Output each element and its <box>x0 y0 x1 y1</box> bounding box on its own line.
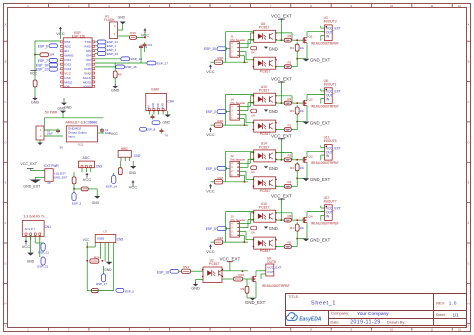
svg-text:VCC_EXT: VCC_EXT <box>271 133 292 138</box>
svg-text:1.0: 1.0 <box>449 301 457 306</box>
svg-text:CN5: CN5 <box>117 237 124 241</box>
svg-text:D: D <box>468 140 470 144</box>
svg-text:VCC_EXT: VCC_EXT <box>271 194 292 199</box>
svg-text:IO4: IO4 <box>86 54 91 58</box>
svg-text:ESP_19: ESP_19 <box>107 52 118 56</box>
svg-text:5V: 5V <box>147 105 151 108</box>
svg-text:ESP_3: ESP_3 <box>72 201 82 205</box>
svg-text:VCC: VCC <box>83 177 92 182</box>
svg-text:5V: 5V <box>60 146 64 150</box>
svg-text:1K: 1K <box>286 219 289 222</box>
svg-text:ESP_18: ESP_18 <box>157 271 169 275</box>
svg-text:ESP_16: ESP_16 <box>125 65 137 69</box>
svg-text:CN1: CN1 <box>45 225 52 229</box>
svg-text:VCC: VCC <box>206 249 215 254</box>
svg-text:R3: R3 <box>288 34 292 38</box>
svg-text:PC817: PC817 <box>260 249 271 253</box>
svg-text:H: H <box>5 302 7 306</box>
svg-text:GSM: GSM <box>151 88 159 92</box>
svg-text:ESP_5: ESP_5 <box>125 290 134 294</box>
svg-text:2019-11-29: 2019-11-29 <box>350 320 380 326</box>
svg-text:5V PWR: 5V PWR <box>45 110 58 114</box>
svg-text:CN2: CN2 <box>134 154 141 158</box>
svg-text:10uF: 10uF <box>47 132 53 136</box>
svg-text:VCC: VCC <box>64 71 71 75</box>
svg-text:RXD: RXD <box>160 103 164 109</box>
svg-text:OUT: OUT <box>267 270 274 274</box>
svg-text:R16: R16 <box>130 31 136 35</box>
svg-text:R4: R4 <box>290 226 294 230</box>
svg-text:IN/OUT5: IN/OUT5 <box>324 139 337 143</box>
svg-text:VCC: VCC <box>206 69 215 74</box>
svg-text:IRLML0060TRPBF: IRLML0060TRPBF <box>262 284 290 288</box>
svg-text:ESP_17: ESP_17 <box>157 61 169 65</box>
svg-text:C15: C15 <box>147 43 152 47</box>
svg-text:ESP_21: ESP_21 <box>37 265 48 269</box>
svg-text:IRLML0060TRPBF: IRLML0060TRPBF <box>311 161 339 165</box>
svg-text:Input: Input <box>68 135 75 139</box>
svg-text:GND: GND <box>269 46 278 51</box>
svg-text:GND: GND <box>31 101 40 105</box>
svg-text:GND_EXT: GND_EXT <box>245 300 266 305</box>
svg-text:PC817: PC817 <box>259 206 270 210</box>
svg-text:IN/OUT3: IN/OUT3 <box>324 20 337 24</box>
svg-text:IO14: IO14 <box>64 58 71 62</box>
svg-text:VCC: VCC <box>22 244 31 249</box>
svg-text:R2: R2 <box>288 240 292 244</box>
svg-text:PC817: PC817 <box>259 145 270 149</box>
svg-text:GND: GND <box>64 106 72 110</box>
svg-text:R2: R2 <box>288 123 292 127</box>
svg-text:Drawn By:: Drawn By: <box>387 319 405 324</box>
svg-text:Your Company: Your Company <box>357 311 389 317</box>
svg-text:ESP_8: ESP_8 <box>146 128 156 132</box>
svg-text:PC817: PC817 <box>209 262 219 266</box>
svg-text:1K: 1K <box>286 186 289 189</box>
svg-text:IO5: IO5 <box>86 49 91 53</box>
svg-text:R4: R4 <box>290 46 294 50</box>
svg-text:11: 11 <box>431 4 434 8</box>
svg-text:ESP_17: ESP_17 <box>96 282 107 286</box>
svg-text:VCC_EXT: VCC_EXT <box>20 162 37 166</box>
svg-text:B: B <box>5 60 7 64</box>
svg-text:MOSI: MOSI <box>83 80 91 84</box>
svg-text:1K: 1K <box>286 39 289 42</box>
svg-text:R2: R2 <box>288 60 292 64</box>
svg-text:D: D <box>5 140 7 144</box>
svg-text:1K: 1K <box>286 129 289 132</box>
svg-text:GND: GND <box>111 89 120 93</box>
svg-text:3V G R T: 3V G R T <box>25 228 36 231</box>
svg-text:WAKE: WAKE <box>64 54 73 58</box>
svg-text:PC817: PC817 <box>260 189 271 193</box>
svg-text:PC817: PC817 <box>259 26 270 30</box>
svg-text:IO9: IO9 <box>64 85 69 89</box>
svg-text:IO12: IO12 <box>64 62 71 66</box>
svg-text:PC817: PC817 <box>260 69 271 73</box>
svg-text:TXD: TXD <box>85 40 92 44</box>
svg-text:GND: GND <box>104 268 112 272</box>
svg-text:U4: U4 <box>251 51 255 55</box>
svg-text:GND: GND <box>163 120 171 124</box>
svg-text:ESP_6: ESP_6 <box>38 44 48 48</box>
svg-text:SCLK: SCLK <box>83 76 92 80</box>
svg-text:IN/OUT1: IN/OUT1 <box>324 82 337 86</box>
svg-text:CN4: CN4 <box>167 100 174 104</box>
svg-text:GND_EXT: GND_EXT <box>310 58 331 63</box>
svg-text:IO2: IO2 <box>86 62 91 66</box>
svg-text:VCC_EXT: VCC_EXT <box>271 77 292 82</box>
svg-text:Q3: Q3 <box>309 154 313 158</box>
svg-text:ESP_18: ESP_18 <box>131 57 143 61</box>
svg-text:R9: R9 <box>241 287 245 291</box>
svg-text:1K: 1K <box>286 66 289 69</box>
svg-text:104: 104 <box>49 53 54 57</box>
svg-text:Q4: Q4 <box>309 215 313 219</box>
svg-text:1K: 1K <box>286 102 289 105</box>
svg-text:G: G <box>4 261 6 265</box>
svg-text:IO13: IO13 <box>64 67 71 71</box>
svg-text:RXD: RXD <box>84 45 91 49</box>
svg-text:C36986: C36986 <box>86 121 98 125</box>
svg-text:GND: GND <box>118 15 126 19</box>
svg-text:IRLML0060TRPBF: IRLML0060TRPBF <box>311 104 339 108</box>
svg-text:CS0: CS0 <box>64 76 70 80</box>
svg-text:REV:: REV: <box>436 301 445 305</box>
svg-text:3.3 Gnd Rx Tx: 3.3 Gnd Rx Tx <box>24 214 46 218</box>
svg-text:U8: U8 <box>47 181 51 185</box>
svg-text:R5: R5 <box>118 73 122 77</box>
svg-text:IN/OUT7: IN/OUT7 <box>324 199 337 203</box>
svg-text:A: A <box>468 23 470 27</box>
svg-text:GND: GND <box>151 103 155 109</box>
svg-text:R3: R3 <box>288 97 292 101</box>
svg-text:Date:: Date: <box>331 320 340 324</box>
svg-text:Sheet:: Sheet: <box>436 313 446 317</box>
svg-text:IO0: IO0 <box>86 58 91 62</box>
svg-text:R3: R3 <box>288 154 292 158</box>
svg-text:U4: U4 <box>251 113 255 117</box>
svg-text:MISO: MISO <box>64 80 73 84</box>
svg-text:R2: R2 <box>288 180 292 184</box>
svg-text:10: 10 <box>390 4 393 8</box>
svg-text:IRLML0060TRPBF: IRLML0060TRPBF <box>311 42 339 46</box>
svg-text:H: H <box>468 302 470 306</box>
svg-text:RV1: RV1 <box>183 265 189 269</box>
svg-text:VCC: VCC <box>30 72 38 76</box>
svg-text:7V: 7V <box>165 133 169 137</box>
svg-text:AMS1117-3.3: AMS1117-3.3 <box>66 121 86 125</box>
svg-text:GND: GND <box>269 166 278 171</box>
svg-text:Company:: Company: <box>331 311 349 316</box>
svg-text:R4: R4 <box>290 166 294 170</box>
svg-text:Sheet_1: Sheet_1 <box>311 300 335 306</box>
svg-text:12: 12 <box>458 327 461 331</box>
svg-text:Q1: Q1 <box>309 35 313 39</box>
svg-text:ESP_20: ESP_20 <box>204 47 216 51</box>
svg-text:C: C <box>468 100 470 104</box>
svg-text:ESP-12E: ESP-12E <box>72 34 86 38</box>
svg-text:X555: X555 <box>97 237 105 241</box>
svg-text:GND: GND <box>269 109 278 114</box>
svg-text:VCC_EXT: VCC_EXT <box>271 14 292 19</box>
svg-text:U11: U11 <box>78 142 84 146</box>
svg-text:PC817: PC817 <box>259 89 270 93</box>
svg-text:R3: R3 <box>288 214 292 218</box>
svg-text:EN: EN <box>64 49 68 53</box>
svg-text:11: 11 <box>431 327 434 331</box>
svg-text:U7: U7 <box>103 230 107 234</box>
svg-text:GND_EXT: GND_EXT <box>310 177 331 182</box>
svg-text:VCC: VCC <box>206 189 215 194</box>
svg-text:1K: 1K <box>286 159 289 162</box>
svg-text:U4: U4 <box>251 170 255 174</box>
svg-text:GND_EXT: GND_EXT <box>310 120 331 125</box>
svg-text:GND_EXT: GND_EXT <box>23 185 41 189</box>
svg-text:ESP_6: ESP_6 <box>206 167 216 171</box>
svg-text:RST: RST <box>64 40 70 44</box>
svg-text:+VCC: +VCC <box>109 132 119 136</box>
svg-text:VCC: VCC <box>83 238 90 242</box>
svg-text:OUT8: OUT8 <box>267 260 276 264</box>
svg-text:GND: GND <box>92 201 100 205</box>
svg-text:GND: GND <box>58 106 66 110</box>
svg-text:G: G <box>467 261 469 265</box>
svg-text:CN3: CN3 <box>96 165 103 169</box>
svg-text:10: 10 <box>390 327 393 331</box>
svg-text:GND: GND <box>191 287 200 291</box>
svg-text:TITLE:: TITLE: <box>288 295 299 299</box>
svg-text:FLASH: FLASH <box>104 18 115 22</box>
svg-text:U4: U4 <box>251 230 255 234</box>
svg-text:PC817: PC817 <box>260 132 271 136</box>
svg-text:12: 12 <box>458 4 461 8</box>
svg-text:A: A <box>5 23 7 27</box>
svg-text:ADC: ADC <box>64 45 71 49</box>
svg-text:C: C <box>5 100 7 104</box>
svg-text:IOG0: IOG0 <box>83 85 91 89</box>
svg-text:TXD: TXD <box>156 103 160 108</box>
svg-text:IRLML0060TRPBF: IRLML0060TRPBF <box>311 221 339 225</box>
svg-text:IO15: IO15 <box>84 67 91 71</box>
svg-text:ESP_2: ESP_2 <box>206 110 216 114</box>
svg-text:ESP_5: ESP_5 <box>206 227 216 231</box>
svg-text:B: B <box>468 60 470 64</box>
svg-text:Q2: Q2 <box>309 98 313 102</box>
svg-text:EasyEDA: EasyEDA <box>299 316 322 322</box>
svg-text:R4: R4 <box>290 109 294 113</box>
svg-text:E: E <box>5 181 7 185</box>
svg-text:GND: GND <box>269 226 278 231</box>
svg-text:ESP_7: ESP_7 <box>38 59 48 63</box>
svg-text:GND_EXT: GND_EXT <box>310 237 331 242</box>
svg-text:GND_EXT: GND_EXT <box>54 175 68 179</box>
svg-text:ESP_14: ESP_14 <box>106 184 117 188</box>
svg-text:GND: GND <box>27 260 35 264</box>
svg-text:E: E <box>468 181 470 185</box>
svg-text:VCC_EXT: VCC_EXT <box>220 257 241 262</box>
svg-text:EXT PWR: EXT PWR <box>44 164 59 168</box>
svg-text:R18: R18 <box>218 176 224 180</box>
svg-text:GND: GND <box>84 71 92 75</box>
svg-text:1K: 1K <box>286 246 289 249</box>
svg-text:1/1: 1/1 <box>453 313 460 318</box>
svg-text:GND: GND <box>129 171 137 175</box>
svg-text:ESP_12: ESP_12 <box>36 68 48 72</box>
svg-text:VCC: VCC <box>206 132 215 137</box>
svg-text:ADC: ADC <box>83 156 91 160</box>
